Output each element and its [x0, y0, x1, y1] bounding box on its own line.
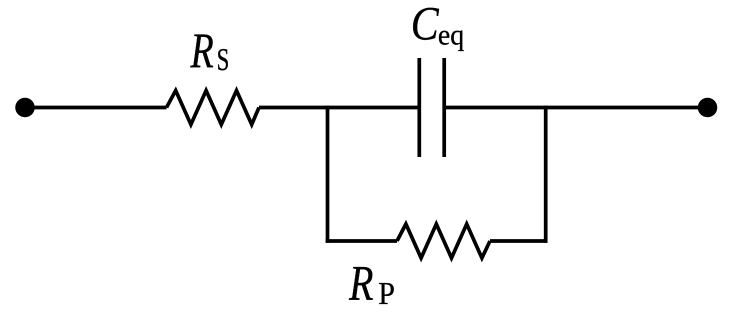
svg-text:R: R	[348, 256, 373, 311]
svg-text:eq: eq	[438, 20, 465, 52]
svg-text:S: S	[217, 42, 230, 77]
capacitor C_eq left plate	[417, 58, 421, 157]
bottom wire RP to node B	[490, 239, 548, 243]
node B junction: vertical wire down to bottom branch	[544, 106, 548, 243]
right terminal dot	[698, 98, 718, 118]
svg-text:C: C	[411, 0, 440, 50]
capacitor C_eq right plate	[442, 58, 446, 157]
wire RS to capacitor left plate (through node A)	[259, 106, 418, 110]
resistor RP	[397, 224, 490, 258]
wire left terminal to RS	[25, 106, 167, 110]
bottom wire node A to RP	[326, 239, 397, 243]
node A junction: vertical wire down to bottom branch	[326, 106, 330, 243]
left terminal dot	[15, 98, 35, 118]
resistor RS	[167, 91, 260, 125]
wire capacitor right plate to right terminal (through node B)	[446, 106, 708, 110]
svg-text:P: P	[378, 275, 395, 311]
svg-text:R: R	[190, 22, 214, 78]
